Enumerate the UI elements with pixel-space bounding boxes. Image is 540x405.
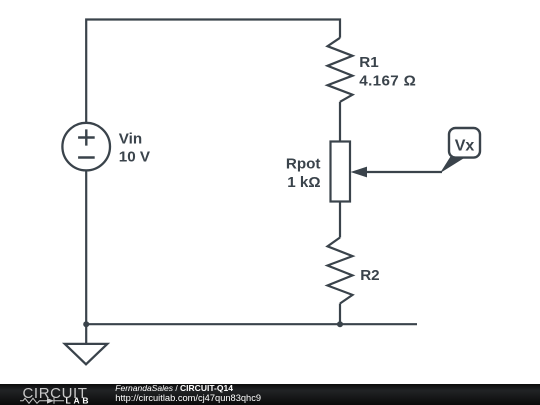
Vx flag box [449,128,480,158]
voltage source Vin [62,123,110,171]
CircuitLab logo resistor-diode glyph [20,398,64,404]
ground rail wire [86,323,417,325]
resistor R1 [328,38,353,102]
svg-text:R1: R1 [359,54,379,71]
junction node at R2 / ground rail [337,321,343,327]
svg-text:1 kΩ: 1 kΩ [287,174,320,191]
svg-text:Vx: Vx [455,138,475,155]
svg-text:Rpot: Rpot [286,155,321,172]
wire Vin+ to R1 top [86,20,340,123]
Vx flag tail [440,157,465,174]
wiper arrowhead [351,167,368,178]
svg-text:Vin: Vin [119,130,142,147]
wire R2 bottom to ground rail [339,304,341,325]
ground symbol [65,324,108,364]
footer bar [0,384,540,405]
svg-text:LAB: LAB [66,396,92,405]
svg-text:R2: R2 [360,267,379,284]
svg-text:10 V: 10 V [119,149,151,166]
resistor R2 [328,238,353,304]
svg-text:FernandaSales / CIRCUIT-Q14: FernandaSales / CIRCUIT-Q14 [115,383,233,393]
junction node at Vin- / ground [83,321,89,327]
potentiometer Rpot body [331,142,351,202]
svg-text:http://circuitlab.com/cj47qun8: http://circuitlab.com/cj47qun83qhc9 [115,393,261,403]
wire Rpot bottom to R2 top [339,202,341,238]
wiper wire to Vx [363,171,442,173]
wire R1 bottom to Rpot top [339,102,341,142]
svg-text:4.167 Ω: 4.167 Ω [359,73,416,90]
wire Vin- down to ground rail [85,172,87,325]
